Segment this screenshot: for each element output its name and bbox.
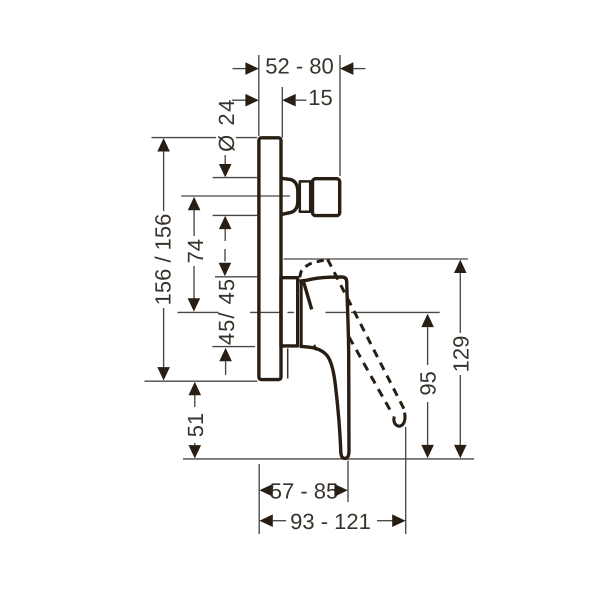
svg-text:93 - 121: 93 - 121 <box>290 509 371 534</box>
dimension 93-121 <box>259 509 405 534</box>
svg-text:51: 51 <box>183 413 208 437</box>
extension line lever-raised-top <box>284 258 469 260</box>
dimension 95 <box>416 314 441 459</box>
svg-text:15: 15 <box>308 85 332 110</box>
pivot centerline <box>178 311 440 313</box>
dimension 57-85 <box>259 478 347 503</box>
extension line cone-bottom <box>213 214 258 216</box>
extension line plate-top horizontal <box>152 137 258 139</box>
svg-text:52 - 80: 52 - 80 <box>265 54 334 79</box>
svg-text:95: 95 <box>416 371 441 395</box>
dimension 51 <box>183 382 208 459</box>
connector nut <box>313 179 340 216</box>
raised lever tip cap <box>394 413 405 427</box>
svg-text:74: 74 <box>183 239 208 263</box>
hidden edge below sleeve <box>287 349 289 379</box>
svg-text:57 - 85: 57 - 85 <box>270 478 339 503</box>
lever handle outline <box>300 277 350 458</box>
dimension 45/45 <box>214 249 239 375</box>
dimension Ø24 <box>214 98 239 241</box>
extension line back-of-plate vertical top <box>258 55 260 136</box>
spout cone olive <box>283 178 298 214</box>
dimension 52-80 <box>233 54 366 79</box>
raised lever dashed lower diagonal <box>349 337 392 413</box>
svg-text:Ø 24: Ø 24 <box>214 98 239 152</box>
baseline <box>183 458 474 460</box>
raised lever lower edge hidden junction tick <box>314 345 316 351</box>
dimension 129 <box>448 260 473 459</box>
extension line nut-tip vertical top <box>339 55 341 176</box>
dimension 156/156 <box>151 138 176 380</box>
wall plate <box>259 138 281 380</box>
extension line cone-top <box>213 177 257 179</box>
svg-text:45/ 45: 45/ 45 <box>214 278 239 345</box>
svg-text:129: 129 <box>448 336 473 373</box>
connector ring <box>300 181 310 211</box>
spout centerline <box>181 195 290 197</box>
extension line handle-tip vertical bottom <box>347 461 349 503</box>
lever inner steep edge <box>303 281 311 310</box>
dimension 74 <box>183 197 208 312</box>
raised lever dashed upper edge <box>328 259 404 409</box>
extension line plate-front vertical top <box>281 87 283 138</box>
svg-text:156 / 156: 156 / 156 <box>151 214 176 306</box>
extension line sleeve-bottom <box>212 346 255 348</box>
extension line back-of-plate vertical bottom <box>258 464 260 534</box>
handle hub left edge <box>300 281 303 346</box>
raised lever dashed left edge <box>300 259 328 277</box>
extension line sleeve-top <box>215 276 257 278</box>
extension line plate-bottom <box>145 380 258 382</box>
extension line raised-lever-tip vertical bottom <box>405 427 407 534</box>
dimension 15 <box>232 85 333 110</box>
escutcheon sleeve <box>281 278 298 346</box>
